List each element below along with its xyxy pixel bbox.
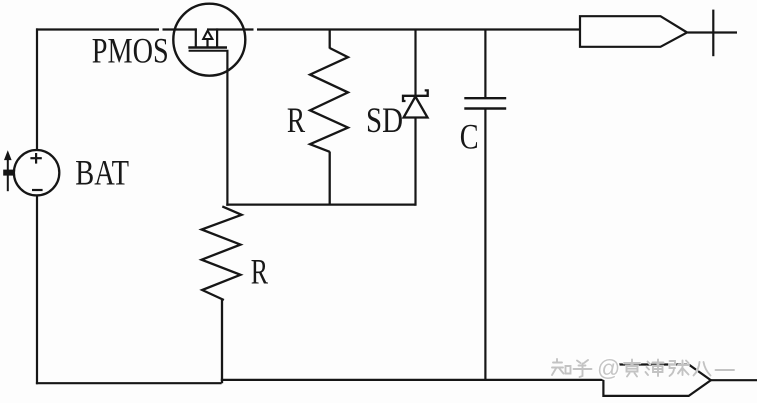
wire top rail segment 4 bbox=[257, 28, 580, 30]
wire R1 top lead bbox=[329, 30, 331, 49]
wire R1 bottom lead bbox=[329, 152, 331, 205]
svg-text:@: @ bbox=[597, 355, 620, 381]
wire SD top lead bbox=[414, 30, 416, 96]
wire left rail vertical bbox=[36, 28, 38, 150]
capacitor plate bottom bbox=[464, 107, 506, 109]
wire J1 tip to terminal bbox=[688, 31, 738, 33]
transistor Q1 PMOS bbox=[173, 4, 245, 76]
watermark zhihu text bbox=[552, 359, 734, 377]
plus terminal cross bbox=[712, 10, 714, 57]
capacitor C bbox=[464, 30, 506, 380]
wire SD bottom lead bbox=[414, 118, 416, 206]
wire C top lead bbox=[484, 30, 486, 99]
battery polarity arrow bbox=[3, 152, 13, 192]
yi bbox=[716, 369, 735, 372]
wire PMOS drain vertical bbox=[226, 51, 228, 206]
huang bbox=[624, 360, 640, 377]
diode triangle bbox=[404, 97, 428, 118]
ba bbox=[694, 362, 711, 376]
wire battery bottom vertical bbox=[36, 195, 38, 384]
connector J1 output plus bbox=[580, 10, 737, 57]
wire R2 bottom lead bbox=[221, 300, 223, 384]
resistor R2 lower bbox=[202, 206, 242, 383]
svg-text:R: R bbox=[251, 251, 268, 291]
resistor R1 upper bbox=[310, 30, 348, 205]
pu bbox=[646, 360, 664, 377]
connector J2 output minus bbox=[603, 365, 757, 396]
diode SD schottky bbox=[403, 30, 428, 206]
svg-text:R: R bbox=[287, 100, 306, 139]
svg-text:SD: SD bbox=[366, 101, 403, 141]
wire middle horizontal node bbox=[226, 204, 415, 206]
zhi bbox=[552, 359, 564, 375]
wire bottom rail left part bbox=[36, 382, 222, 384]
svg-text:PMOS: PMOS bbox=[92, 30, 169, 70]
voltage source BAT bbox=[14, 150, 59, 195]
svg-text:BAT: BAT bbox=[75, 154, 129, 194]
capacitor plate top bbox=[464, 97, 506, 99]
wire J2 tip to edge bbox=[711, 379, 757, 381]
resistor R1 zigzag bbox=[310, 48, 348, 152]
wire top rail segment 3 bbox=[207, 28, 254, 30]
resistor R2 zigzag bbox=[202, 206, 242, 300]
wire top rail segment 1 bbox=[36, 28, 159, 30]
schottky cathode bar with hooks bbox=[403, 90, 428, 101]
wire bottom rail right part bbox=[221, 379, 604, 381]
wire C bottom lead bbox=[484, 109, 486, 380]
hu bbox=[574, 360, 592, 377]
zhang bbox=[670, 361, 689, 377]
watermark zhihu white halo bbox=[552, 359, 734, 377]
svg-text:C: C bbox=[460, 116, 479, 156]
wire top rail segment 2 bbox=[163, 28, 197, 30]
